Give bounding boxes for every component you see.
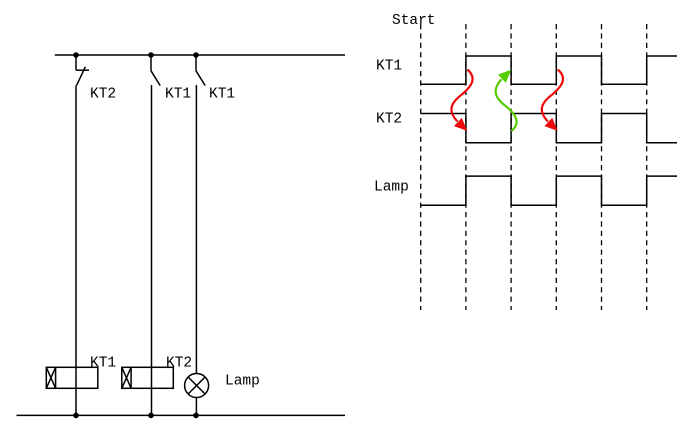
wire bottom rail [17, 414, 346, 416]
node bottom A [73, 413, 79, 419]
lamp [185, 374, 209, 398]
timing grid dashed line 6 [646, 24, 648, 310]
coil KT2 [122, 367, 174, 388]
node bottom C [193, 413, 199, 419]
svg-text:KT2: KT2 [90, 86, 116, 102]
wire branch 2 vertical [151, 85, 153, 415]
coil KT1 [46, 367, 98, 388]
contact KT1 normally-open (right) [196, 55, 205, 86]
timing grid dashed line 5 [601, 24, 603, 310]
timing grid dashed line 4 [555, 24, 557, 310]
svg-text:KT1: KT1 [165, 86, 191, 102]
svg-text:KT1: KT1 [90, 356, 116, 372]
node top B (branch KT1 mid) [148, 52, 154, 58]
svg-text:Lamp: Lamp [374, 180, 409, 196]
node bottom B [148, 413, 154, 419]
svg-text:KT2: KT2 [376, 111, 402, 127]
svg-text:KT1: KT1 [209, 86, 235, 102]
svg-text:KT1: KT1 [376, 59, 402, 75]
arrow red 2 (KT1 on -> KT2 off) [542, 70, 563, 131]
waveform KT2 [421, 114, 677, 143]
wire branch 3 vertical lower [195, 398, 197, 416]
timing grid dashed line 1 [420, 24, 422, 310]
contact KT2 normally-closed [76, 55, 89, 85]
svg-text:Start: Start [392, 13, 436, 29]
svg-text:Lamp: Lamp [225, 374, 260, 390]
wire branch 3 vertical upper [195, 85, 197, 374]
wire branch 1 vertical [75, 85, 77, 415]
svg-text:KT2: KT2 [166, 356, 192, 372]
waveform Lamp [421, 176, 677, 205]
arrow green (KT2 on -> KT1 off) [496, 70, 517, 131]
waveform KT1 [421, 56, 677, 84]
node top C (branch lamp) [193, 52, 199, 58]
contact KT1 normally-open (middle) [151, 55, 160, 86]
arrow red 1 (KT1 on -> KT2 off) [451, 70, 472, 131]
timing grid dashed line 2 [465, 24, 467, 310]
node top A (branch KT2) [73, 52, 79, 58]
timing grid dashed line 3 [510, 24, 512, 310]
wire top rail [55, 54, 345, 56]
